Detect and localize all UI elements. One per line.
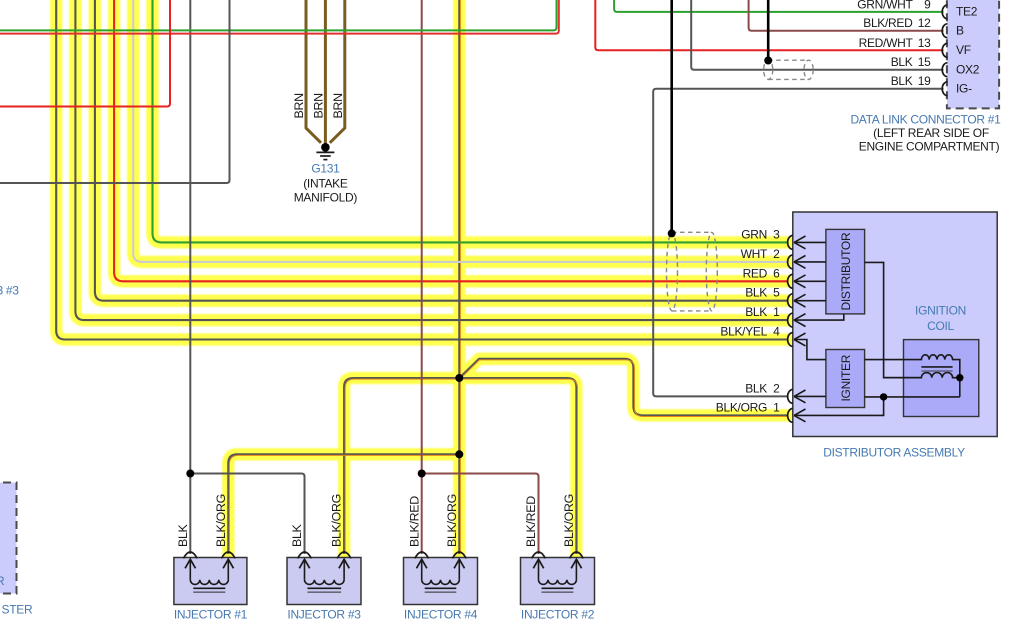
node BLK junction bbox=[186, 470, 194, 478]
svg-text:BLK/ORG: BLK/ORG bbox=[562, 494, 576, 547]
wire RED/WHT to VF bbox=[595, 0, 943, 50]
wire distributor to coil secondary bbox=[865, 262, 922, 377]
svg-text:COIL: COIL bbox=[927, 319, 954, 333]
wire shield drain (data link) bbox=[767, 0, 770, 61]
svg-text:DISTRIBUTOR ASSEMBLY: DISTRIBUTOR ASSEMBLY bbox=[823, 446, 965, 460]
svg-text:STER: STER bbox=[2, 603, 33, 617]
wire BLK from IG- to distributor BLK 2 bbox=[653, 89, 943, 397]
injector #1 internals bbox=[183, 552, 235, 592]
svg-text:INJECTOR #4: INJECTOR #4 bbox=[404, 608, 478, 622]
svg-text:1: 1 bbox=[773, 400, 780, 414]
junction dot coil common bbox=[956, 374, 963, 381]
node shield drain (OX2) bbox=[764, 57, 772, 65]
wire GRN/WHT to TE2 bbox=[614, 0, 943, 12]
ignition coil box bbox=[904, 340, 979, 417]
igniter inner box bbox=[826, 350, 865, 408]
svg-text:3 #3: 3 #3 bbox=[0, 284, 19, 298]
highlight: BLK/ORG branch to injector 3 bbox=[344, 378, 459, 553]
svg-text:6: 6 bbox=[773, 266, 780, 280]
svg-text:BLK/ORG: BLK/ORG bbox=[330, 494, 344, 547]
ignition coil symbol bbox=[865, 355, 960, 397]
injector #3 internals bbox=[298, 552, 351, 592]
svg-text:WHT: WHT bbox=[741, 247, 768, 261]
svg-text:BLK: BLK bbox=[891, 55, 913, 69]
pin 2 (BLK) lead into igniter bbox=[794, 390, 826, 403]
svg-text:BLK: BLK bbox=[745, 286, 767, 300]
svg-text:12: 12 bbox=[918, 16, 931, 30]
svg-text:2: 2 bbox=[773, 381, 780, 395]
svg-text:IG-: IG- bbox=[956, 82, 972, 96]
wire RED upper-left L bbox=[0, 0, 170, 107]
svg-text:B: B bbox=[956, 24, 964, 38]
svg-text:BLK/ORG: BLK/ORG bbox=[214, 494, 228, 547]
pin 1 (BLK/ORG) lead up to igniter output node bbox=[794, 397, 884, 422]
distributor connector female pin arcs bbox=[788, 236, 793, 423]
injector #2 internals bbox=[532, 552, 584, 592]
svg-text:3: 3 bbox=[773, 227, 780, 241]
injector #4 box bbox=[404, 558, 478, 605]
svg-text:19: 19 bbox=[918, 74, 931, 88]
svg-text:2: 2 bbox=[773, 247, 780, 261]
svg-text:BRN: BRN bbox=[292, 93, 306, 118]
svg-text:INJECTOR #2: INJECTOR #2 bbox=[521, 608, 595, 622]
svg-text:MANIFOLD): MANIFOLD) bbox=[294, 191, 358, 205]
wire BLK/ORG to distributor pin 1 bbox=[459, 359, 788, 417]
wire GRN horizontal upper left bbox=[0, 0, 557, 30]
wire BLK to OX2 bbox=[691, 0, 943, 70]
svg-text:BLK: BLK bbox=[745, 305, 767, 319]
junction dot igniter output bbox=[880, 393, 887, 400]
svg-text:G131: G131 bbox=[311, 162, 340, 176]
svg-text:BLK/ORG: BLK/ORG bbox=[445, 494, 459, 547]
wire GRN 3 (bundle) bbox=[153, 0, 789, 242]
pin 1 (BLK) lead into distributor bottom bbox=[794, 314, 844, 327]
injector #1 box bbox=[174, 558, 247, 605]
svg-text:RED: RED bbox=[743, 266, 768, 280]
wire BRN ground wires bbox=[306, 0, 345, 144]
wire igniter output to coil junction bbox=[865, 396, 960, 398]
svg-text:TE2: TE2 bbox=[956, 5, 978, 19]
svg-text:DATA LINK CONNECTOR #1: DATA LINK CONNECTOR #1 bbox=[850, 113, 1001, 127]
node shield drain (harness) bbox=[668, 229, 676, 237]
svg-text:BRN: BRN bbox=[331, 93, 345, 118]
shielded cable symbol (distributor harness) bbox=[667, 232, 718, 311]
node BLK/ORG junction A bbox=[455, 374, 463, 382]
node BLK/ORG junction B bbox=[455, 450, 463, 458]
injector #3 box bbox=[287, 558, 361, 605]
highlight: left bundle wires to distributor connector bbox=[56, 0, 788, 340]
distributor pins 3,2,6,5 arrows and leads bbox=[794, 236, 826, 307]
node BLK/RED junction bbox=[418, 470, 426, 478]
pin 4 (BLK/YEL) lead into igniter bbox=[794, 333, 826, 360]
wire RED horizontal upper left bbox=[0, 0, 559, 34]
svg-text:R: R bbox=[0, 574, 5, 588]
highlight: BLK/ORG path to distributor pin 1 bbox=[459, 359, 788, 416]
wire RED 6 (bundle) bbox=[114, 0, 788, 281]
highlight: BLK/ORG branch to injector 1 bbox=[228, 454, 459, 553]
svg-text:GRN/WHT: GRN/WHT bbox=[857, 0, 913, 11]
distributor inner box bbox=[826, 229, 865, 314]
highlight: BLK/ORG vertical trunk bbox=[453, 0, 465, 553]
svg-text:INJECTOR #3: INJECTOR #3 bbox=[287, 608, 361, 622]
svg-text:4: 4 bbox=[773, 325, 780, 339]
wire BLK/RED to B bbox=[749, 0, 944, 31]
distributor assembly box bbox=[793, 212, 997, 437]
shielded cable symbol (OX2 wire) bbox=[764, 60, 814, 79]
wire BLK/ORG vertical trunk bbox=[459, 0, 460, 554]
svg-text:1: 1 bbox=[773, 305, 780, 319]
svg-text:RED/WHT: RED/WHT bbox=[859, 36, 914, 50]
svg-text:VF: VF bbox=[956, 43, 971, 57]
svg-text:5: 5 bbox=[773, 286, 780, 300]
injector #2 box bbox=[521, 558, 595, 605]
svg-text:IGNITION: IGNITION bbox=[915, 304, 966, 318]
svg-text:(LEFT REAR SIDE OF: (LEFT REAR SIDE OF bbox=[873, 126, 989, 140]
svg-text:BLK: BLK bbox=[290, 523, 304, 547]
wire BLK/ORG branch to injector 3 bbox=[344, 378, 459, 554]
svg-text:BLK: BLK bbox=[176, 523, 190, 547]
wire shield drain (distributor harness) bbox=[670, 0, 673, 233]
wire BLK to injectors 1 and 3 bbox=[190, 0, 304, 554]
svg-text:INJECTOR #1: INJECTOR #1 bbox=[174, 608, 248, 622]
svg-text:(INTAKE: (INTAKE bbox=[303, 177, 348, 191]
ground G131 symbol bbox=[316, 143, 334, 160]
svg-text:ENGINE COMPARTMENT): ENGINE COMPARTMENT) bbox=[859, 140, 1000, 154]
svg-text:BLK/YEL: BLK/YEL bbox=[720, 325, 767, 339]
wire BLK 1 (bundle) bbox=[75, 0, 788, 320]
svg-text:IGNITER: IGNITER bbox=[839, 354, 853, 401]
svg-text:13: 13 bbox=[918, 36, 931, 50]
svg-text:15: 15 bbox=[918, 55, 931, 69]
svg-text:BLK/ORG: BLK/ORG bbox=[716, 400, 767, 414]
wire BLK 5 (bundle) bbox=[95, 0, 788, 301]
svg-text:BLK/RED: BLK/RED bbox=[863, 16, 913, 30]
left edge partial component box bbox=[0, 483, 17, 594]
svg-text:BLK/RED: BLK/RED bbox=[524, 496, 538, 547]
svg-text:BLK: BLK bbox=[891, 74, 913, 88]
data link connector #1 box bbox=[947, 0, 999, 108]
data link connector female pin arcs bbox=[942, 5, 947, 96]
wire WHT 2 (bundle) bbox=[133, 0, 788, 262]
svg-text:9: 9 bbox=[924, 0, 931, 11]
svg-text:BRN: BRN bbox=[311, 93, 325, 118]
svg-text:DISTRIBUTOR: DISTRIBUTOR bbox=[839, 232, 853, 310]
svg-text:BLK: BLK bbox=[745, 381, 767, 395]
svg-text:GRN: GRN bbox=[741, 227, 767, 241]
wire BLK upper-left L bbox=[0, 0, 230, 183]
wire BLK/ORG branch to injector 2 bbox=[459, 378, 577, 554]
wire BLK/RED to injectors 4 and 2 bbox=[422, 0, 539, 554]
wire BLK/ORG branch to injector 1 bbox=[228, 454, 459, 554]
svg-text:OX2: OX2 bbox=[956, 63, 980, 77]
injector #4 internals bbox=[415, 552, 466, 592]
highlight: BLK/ORG branch to injector 2 bbox=[459, 378, 576, 553]
wire BLK/YEL 4 (bundle) bbox=[56, 0, 788, 340]
svg-text:BLK/RED: BLK/RED bbox=[407, 496, 421, 547]
